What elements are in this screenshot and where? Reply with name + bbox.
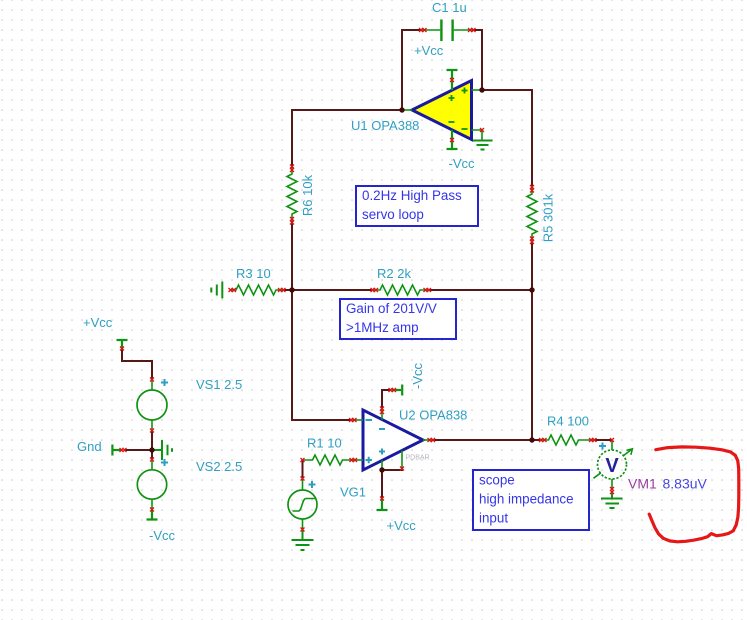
resistor R2 [372, 285, 428, 295]
ground for R3 (pointing left) [211, 282, 222, 299]
jumper -Vcc (bottom left) [147, 510, 158, 520]
resistor R1 [303, 455, 353, 465]
wire R6 bottom to node C [291, 221, 293, 290]
wire node G right to PDBAR pin [382, 469, 402, 470]
node C junction [289, 287, 294, 292]
pin marks U1 [450, 78, 454, 82]
svg-text:scope: scope [479, 473, 515, 488]
pin marks R2 [371, 288, 379, 292]
pin marks R3 [229, 288, 237, 292]
voltage generator VG1 [288, 478, 317, 530]
wire C1 right down to node B [472, 30, 482, 90]
svg-text:Gnd: Gnd [77, 439, 102, 454]
wire R1 left down to VG1 [302, 460, 304, 478]
svg-text:U1 OPA388: U1 OPA388 [351, 118, 419, 133]
jumper Gnd (rotated) [112, 445, 121, 456]
wire U2 V+ pin node G down to +Vcc jumper [381, 470, 383, 498]
svg-text:-Vcc: -Vcc [449, 156, 476, 171]
wire node C to R2 left [292, 289, 372, 291]
wire node D down to output node E [531, 290, 533, 440]
note box scope high impedance input [473, 470, 589, 530]
wire node E to R4 left [532, 439, 540, 441]
wire +Vcc jumper to VS1 top [122, 350, 152, 379]
plus mark VS2 [161, 459, 168, 466]
node G junction [379, 467, 384, 472]
node F junction [149, 447, 154, 452]
red freehand annotation circle around VM1 value [649, 447, 739, 542]
node E junction [529, 437, 534, 442]
wire U2 V- pin to -Vcc jumper [382, 390, 390, 409]
svg-text:R2 2k: R2 2k [377, 266, 411, 281]
wire R4 right to VM1 [594, 439, 612, 441]
wire U1 output left to R6 column [292, 110, 402, 168]
resistor R3 [230, 285, 284, 295]
svg-text:PDBAR: PDBAR [406, 455, 430, 462]
resistor R6 [287, 168, 297, 221]
wire R5 bottom to node D [531, 241, 533, 290]
wire node F to VS2 top [151, 450, 153, 459]
jumper +Vcc (top left) [117, 340, 128, 350]
plus mark VS1 [161, 379, 606, 488]
capacitor C1 [422, 20, 472, 42]
wire C1 left to node A [402, 30, 422, 31]
resistor R4 [540, 435, 594, 445]
svg-text:-Vcc: -Vcc [410, 363, 425, 390]
note box Gain of 201V/V >1MHz amp [340, 299, 456, 339]
svg-text:R6 10k: R6 10k [300, 174, 315, 216]
svg-text:0.2Hz High Pass: 0.2Hz High Pass [362, 188, 462, 203]
pin marks R5 [530, 185, 534, 193]
svg-text:VS2 2.5: VS2 2.5 [196, 459, 242, 474]
pin marks R4 [539, 438, 547, 442]
voltage source VS2 [137, 459, 166, 510]
pin marks C1 [419, 28, 427, 32]
svg-text:R1 10: R1 10 [307, 436, 342, 451]
pin marks U2 [349, 418, 357, 422]
note box 0.2Hz High Pass servo loop [356, 186, 478, 226]
wire node B right and down to R5 top [482, 90, 532, 187]
wire Gnd jumper to node F [125, 449, 152, 451]
ground below VG1 [292, 530, 314, 551]
op-amp U1 OPA388 [402, 70, 493, 150]
op-amp U2 OPA838 [351, 409, 434, 470]
svg-text:R4 100: R4 100 [547, 414, 589, 429]
jumper -Vcc (near U2, rotated) [392, 385, 402, 396]
svg-text:servo loop: servo loop [362, 207, 424, 222]
svg-text:VS1 2.5: VS1 2.5 [196, 377, 242, 392]
svg-text:VG1: VG1 [340, 485, 366, 500]
wire R3 right to node C [284, 289, 292, 291]
resistor R5 [527, 187, 537, 241]
svg-text:+Vcc: +Vcc [387, 518, 417, 533]
wire node C down to U2 inverting input [292, 290, 351, 420]
voltmeter VM1 [594, 440, 633, 488]
ground right of node F [152, 440, 172, 460]
pin marks jumpers and sources [120, 347, 124, 351]
ground below VM1 [601, 493, 623, 509]
pin marks R6 [290, 165, 294, 173]
voltage source VS1 [137, 379, 167, 431]
wire R2 right to node D [428, 289, 532, 291]
svg-text:U2 OPA838: U2 OPA838 [399, 408, 467, 423]
svg-text:high impedance: high impedance [479, 492, 574, 507]
svg-text:R5 301k: R5 301k [540, 193, 555, 242]
node A junction [399, 107, 404, 112]
pin marks R1 [301, 458, 305, 462]
node B junction [479, 87, 484, 92]
svg-text:Gain of 201V/V: Gain of 201V/V [346, 301, 437, 316]
svg-text:input: input [479, 511, 508, 526]
node D junction [529, 287, 534, 292]
svg-text:-Vcc: -Vcc [149, 528, 176, 543]
svg-text:8.83uV: 8.83uV [663, 476, 708, 492]
svg-text:C1 1u: C1 1u [432, 0, 467, 15]
plus mark VG1 [309, 481, 316, 488]
svg-text:+Vcc: +Vcc [414, 43, 444, 58]
wire U2 output to node E [434, 439, 532, 441]
plus mark VM1 [599, 443, 606, 450]
wire VS1 bottom to node F [151, 431, 153, 450]
svg-text:+Vcc: +Vcc [83, 315, 113, 330]
svg-text:V: V [605, 455, 619, 477]
jumper +Vcc (below U2) [377, 498, 388, 510]
svg-text:VM1: VM1 [628, 476, 657, 492]
svg-text:>1MHz amp: >1MHz amp [346, 320, 419, 335]
terminal x marks [120, 28, 615, 532]
svg-text:R3 10: R3 10 [236, 266, 271, 281]
wire node A down to U1 output [401, 30, 403, 110]
